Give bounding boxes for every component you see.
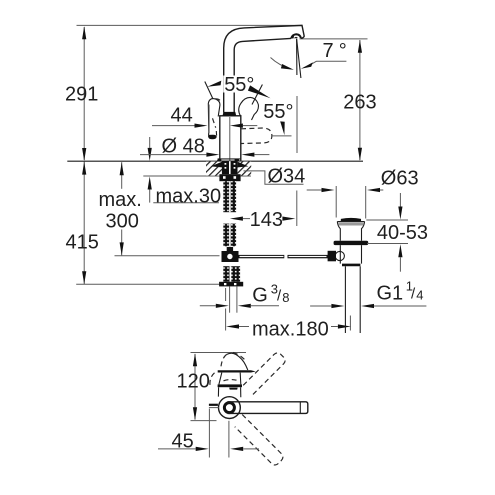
svg-text:max.30: max.30 xyxy=(156,186,222,208)
dimension diameter 48 xyxy=(140,135,269,157)
svg-text:44: 44 xyxy=(171,105,193,127)
dimension G 1 1/4 xyxy=(310,279,426,308)
plan spout solid (pointing right) xyxy=(228,402,308,414)
plan body circle xyxy=(219,397,241,419)
G 3/8 connection nuts xyxy=(219,266,243,286)
plan handle blade xyxy=(218,370,256,372)
drain tailpipe xyxy=(345,266,360,333)
spout (front view) xyxy=(224,25,305,112)
dimension 263 xyxy=(300,39,377,161)
dimension 415 xyxy=(66,162,238,285)
angle 55 degrees (right) xyxy=(263,101,293,135)
svg-text:55°: 55° xyxy=(263,101,293,123)
mounting deck line xyxy=(67,160,363,162)
svg-text:8: 8 xyxy=(282,290,289,305)
shank through deck xyxy=(222,161,238,174)
svg-text:7: 7 xyxy=(323,40,334,62)
lever handle dashed (horizontal right) xyxy=(241,96,297,153)
svg-text:55°: 55° xyxy=(224,74,254,96)
plan handle body xyxy=(210,373,242,398)
angle 55 degrees (left) xyxy=(205,74,271,105)
diameter 34 label with leader xyxy=(244,165,306,187)
svg-text:Ø63: Ø63 xyxy=(381,167,419,189)
svg-text:Ø 48: Ø 48 xyxy=(162,135,205,157)
rod joint ball xyxy=(335,251,344,260)
dimension 40-53 xyxy=(366,193,428,272)
svg-text:291: 291 xyxy=(65,84,98,106)
dimension G 3/8 xyxy=(200,282,290,308)
svg-text:415: 415 xyxy=(66,232,99,254)
svg-text:143: 143 xyxy=(250,209,283,231)
plan handle lever loop xyxy=(221,353,248,371)
drain: dimension diameter 63 xyxy=(307,167,419,218)
svg-text:300: 300 xyxy=(106,211,139,233)
dimension 44 xyxy=(152,105,257,134)
dimension 143 xyxy=(230,191,297,232)
dimension max.180 xyxy=(226,288,351,341)
drain locknut xyxy=(334,241,369,245)
deck cross-section hatched right xyxy=(238,162,252,176)
plan lever tip tick at left xyxy=(209,404,219,408)
extension line top (spout max height) xyxy=(77,24,303,26)
faucet body (front view) xyxy=(220,112,241,161)
svg-text:120: 120 xyxy=(177,371,210,393)
dimension max.300 xyxy=(99,162,220,256)
drain stopper knob xyxy=(341,218,361,222)
cross fitting with pull rod xyxy=(222,247,239,262)
svg-text:40-53: 40-53 xyxy=(377,222,428,244)
dimension max.30 (deck thickness) xyxy=(143,137,251,208)
faucet base plate on deck xyxy=(217,159,241,161)
pull rod to drain xyxy=(239,255,328,258)
svg-text:max.: max. xyxy=(99,189,142,211)
threaded shank section 2 xyxy=(223,224,236,247)
svg-text:4: 4 xyxy=(416,288,423,303)
drain flange bell xyxy=(337,222,364,241)
svg-text:G: G xyxy=(252,284,268,306)
svg-text:max.180: max.180 xyxy=(252,319,329,341)
dimension 45 xyxy=(158,409,259,458)
svg-text:263: 263 xyxy=(343,92,376,114)
drain body xyxy=(328,245,362,266)
svg-text:45: 45 xyxy=(172,431,194,453)
dimension 291 xyxy=(65,26,98,161)
aerator at spout tip xyxy=(291,34,301,38)
threaded shank section 1 xyxy=(223,181,236,212)
svg-text:G1: G1 xyxy=(377,283,404,305)
deck cross-section hatched left xyxy=(206,162,222,176)
lever handle solid (up-left position) xyxy=(208,99,221,140)
connection tubes below nuts xyxy=(230,286,237,312)
mounting clamp and nut xyxy=(219,174,240,181)
plan spout dashed (swivel down-right) xyxy=(235,415,283,466)
dimension 120 xyxy=(177,353,247,421)
angle 7 degrees xyxy=(271,39,347,78)
plan spout dashed (swivel up-right) xyxy=(243,353,285,395)
handle base cap xyxy=(223,112,237,116)
svg-text:°: ° xyxy=(339,40,347,62)
lever handle tilted right xyxy=(239,97,259,120)
